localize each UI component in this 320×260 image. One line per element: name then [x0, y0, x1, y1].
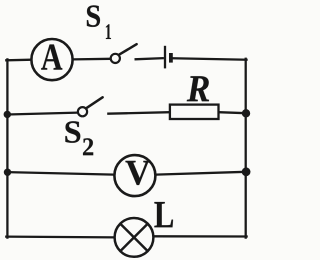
wire lamp to bottom-right corner	[154, 235, 247, 237]
wire switch S2 to resistor	[107, 112, 170, 114]
node junction dot left row3	[4, 169, 11, 176]
node junction dot right row2	[242, 109, 250, 117]
ammeter U1 circle	[31, 39, 72, 80]
label L	[154, 202, 173, 227]
battery long plate	[164, 46, 166, 69]
lamp L cross diagonal 1	[120, 224, 147, 251]
wire voltmeter to right node	[156, 172, 246, 175]
voltmeter label V	[125, 161, 150, 185]
wire row2: left node to switch S2	[7, 113, 78, 115]
battery short plate	[169, 53, 173, 63]
label S1 letter S	[87, 5, 100, 26]
switch S1 blade	[119, 44, 137, 55]
wire switch S1 to battery	[135, 58, 164, 59]
switch S2 blade	[86, 97, 103, 108]
node junction dot right row3	[242, 167, 251, 176]
wire top row: corner to ammeter	[6, 59, 31, 62]
ammeter label A	[41, 44, 62, 69]
wire bottom row: corner to lamp	[6, 235, 114, 238]
lamp L circle	[115, 218, 154, 257]
switch S2 contact circle	[78, 107, 87, 116]
label S1 subscript 1	[106, 24, 111, 39]
label R italic	[187, 76, 209, 101]
wire resistor to right node	[219, 112, 247, 113]
switch S1 contact circle	[111, 54, 120, 63]
wire right vertical	[245, 59, 247, 238]
wire battery to top-right corner	[173, 58, 247, 59]
label S2 letter S	[65, 121, 80, 143]
wire left vertical	[6, 59, 8, 237]
node junction dot left row2	[4, 111, 11, 118]
resistor R box	[170, 105, 219, 119]
wire row3: left node to voltmeter	[7, 172, 114, 175]
wire ammeter to switch S1	[73, 58, 110, 61]
voltmeter U2 circle	[114, 155, 155, 196]
label S2 subscript 2	[83, 138, 93, 155]
lamp L cross diagonal 2	[120, 224, 147, 251]
